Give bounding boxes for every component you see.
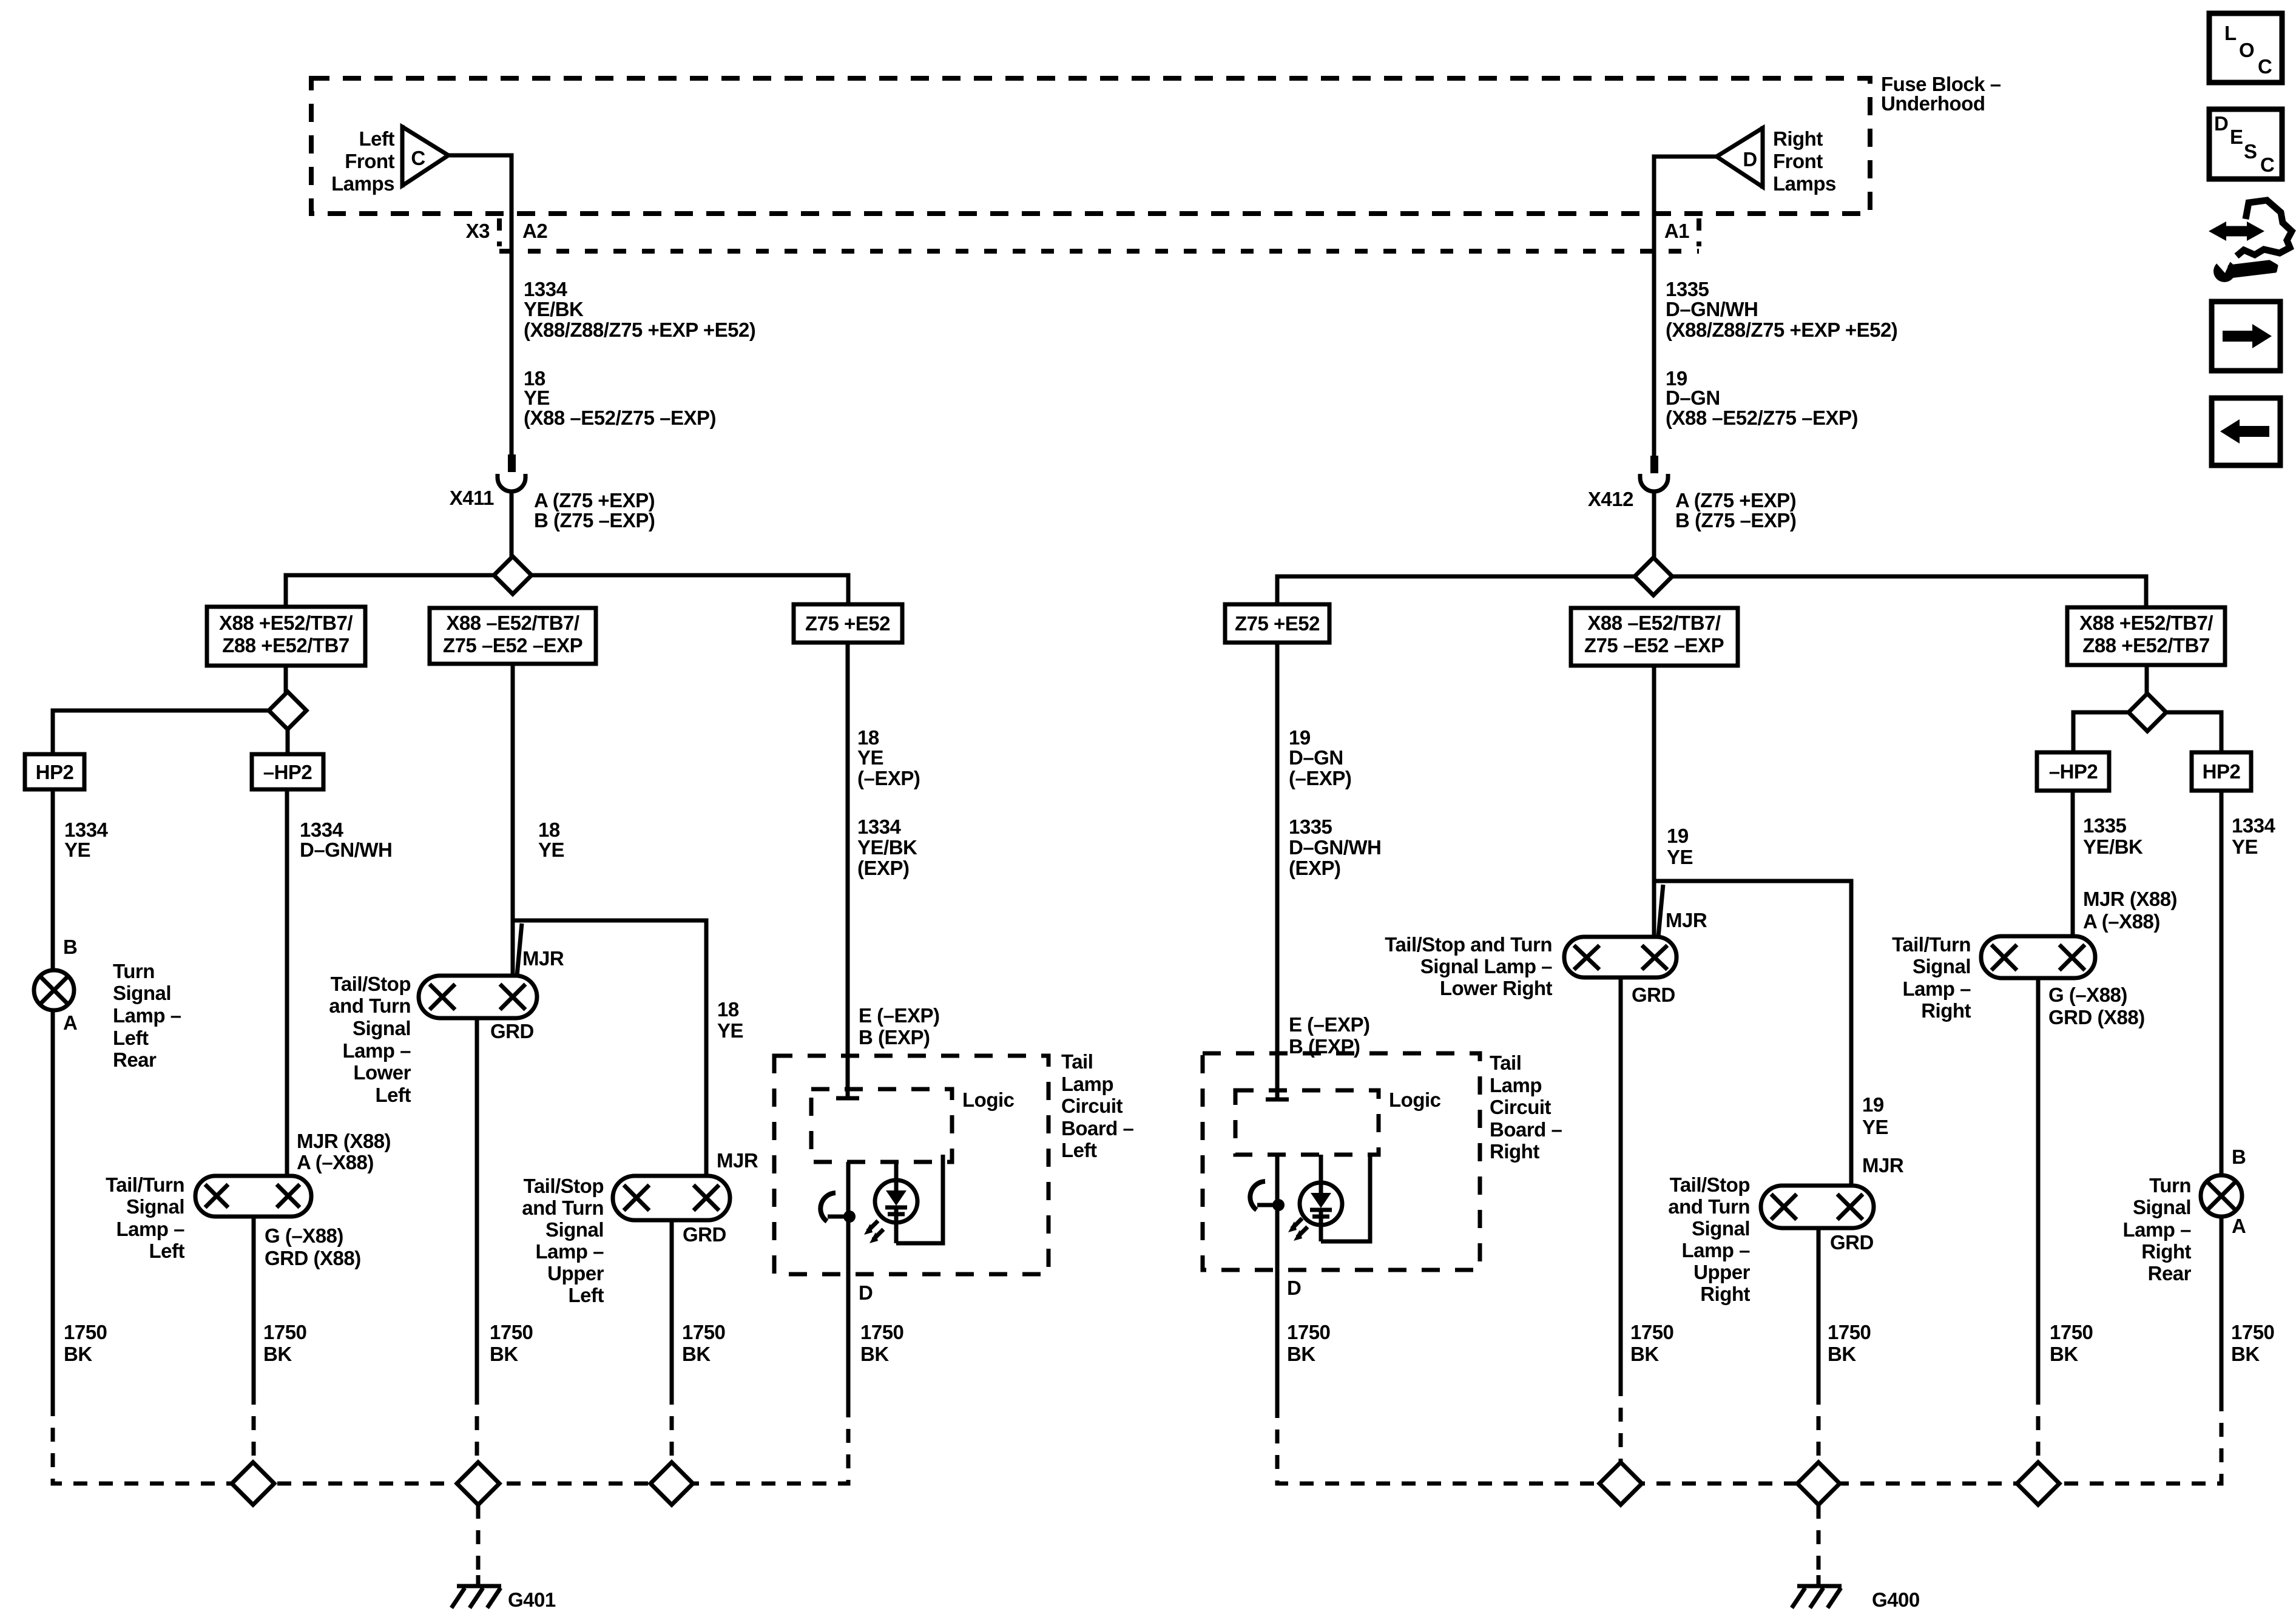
wire diamond2 to -HP2 left: [286, 729, 290, 754]
svg-text:S: S: [2244, 140, 2257, 163]
svg-text:Upper: Upper: [1693, 1261, 1751, 1283]
svg-text:Underhood: Underhood: [1881, 92, 1985, 115]
logic box right: [1235, 1089, 1441, 1155]
left main horizontal wire: [286, 575, 848, 607]
svg-text:D: D: [2214, 112, 2228, 135]
svg-text:D: D: [859, 1281, 873, 1304]
svg-text:G401: G401: [508, 1588, 556, 1611]
svg-text:B: B: [2232, 1146, 2246, 1168]
svg-text:Z88 +E52/TB7: Z88 +E52/TB7: [222, 634, 349, 657]
wire HP2 right to turn signal lamp right rear: [2221, 791, 2276, 1175]
svg-text:BK: BK: [263, 1343, 292, 1365]
svg-text:Tail/Turn: Tail/Turn: [106, 1173, 184, 1196]
option box HP2 left: [25, 754, 84, 789]
wire -HP2 to tail/turn lamp left: [287, 789, 392, 1176]
svg-text:BK: BK: [64, 1343, 92, 1365]
svg-text:YE: YE: [1862, 1116, 1888, 1138]
wire label 1334 YE/BK left: [524, 278, 755, 341]
tail/stop and turn signal lamp - upper right: [1668, 1154, 1904, 1305]
tail/stop and turn signal lamp - lower left: [329, 923, 564, 1106]
wire box to diamond right: [2145, 665, 2149, 694]
svg-text:E: E: [2230, 126, 2243, 148]
svg-text:1750: 1750: [1287, 1321, 1330, 1343]
svg-text:X88 –E52/TB7/: X88 –E52/TB7/: [1587, 612, 1720, 634]
svg-text:Tail/Stop: Tail/Stop: [1670, 1173, 1750, 1196]
svg-text:Right: Right: [1773, 127, 1823, 150]
svg-text:(X88 –E52/Z75 –EXP): (X88 –E52/Z75 –EXP): [1666, 407, 1858, 429]
svg-text:A (Z75 +EXP): A (Z75 +EXP): [534, 489, 655, 511]
connector C (Left Front Lamps) triangle: [331, 125, 448, 195]
tail lamp circuit board - right dashed box: [1203, 1052, 1562, 1270]
turn signal lamp - right rear: [2122, 1146, 2246, 1284]
svg-text:Turn: Turn: [113, 960, 155, 982]
svg-text:Lamp –: Lamp –: [1902, 977, 1971, 1000]
turn signal lamp - left rear: [34, 936, 181, 1071]
Fuse Block - Underhood dashed box: [311, 73, 2001, 214]
svg-text:BK: BK: [682, 1343, 711, 1365]
inline connector X412: [1588, 456, 1796, 532]
svg-text:Signal Lamp –: Signal Lamp –: [1420, 955, 1552, 977]
svg-text:G (–X88): G (–X88): [2048, 984, 2127, 1006]
bus diamond left 3: [650, 1462, 693, 1505]
wire X412 to junction: [1652, 491, 1656, 559]
svg-text:Left: Left: [149, 1240, 185, 1262]
svg-text:Front: Front: [1773, 150, 1823, 172]
wire -HP2 right to tail/turn lamp right: [2073, 791, 2177, 936]
tail/stop and turn signal lamp - upper left: [522, 1149, 758, 1306]
wire X88-E52 right box to lower right lamp: [1654, 666, 1693, 937]
svg-text:Lamp –: Lamp –: [342, 1039, 411, 1062]
junction diamond HP2 split left: [269, 692, 306, 729]
wire box to diamond2 left: [284, 666, 288, 694]
svg-text:BK: BK: [1287, 1343, 1315, 1365]
svg-text:Right: Right: [2141, 1240, 2191, 1263]
svg-text:1335: 1335: [2083, 814, 2127, 837]
svg-text:1750: 1750: [490, 1321, 533, 1343]
wire lamp A right to bus: [2221, 1217, 2274, 1404]
svg-text:Lower: Lower: [353, 1061, 411, 1084]
svg-text:Left: Left: [359, 127, 395, 150]
svg-text:Circuit: Circuit: [1490, 1096, 1551, 1118]
svg-text:X3: X3: [466, 220, 490, 242]
wire label 18 YE left: [524, 367, 716, 429]
svg-text:Z75 –E52 –EXP: Z75 –E52 –EXP: [443, 634, 582, 657]
tail lamp circuit board - left dashed box: [774, 1050, 1134, 1274]
svg-text:E (–EXP): E (–EXP): [859, 1004, 940, 1027]
svg-text:HP2: HP2: [2203, 760, 2241, 783]
svg-text:GRD: GRD: [490, 1020, 534, 1042]
option box X88 +E52/TB7 Z88 +E52/TB7 left: [207, 607, 365, 666]
svg-text:MJR (X88): MJR (X88): [2083, 888, 2177, 910]
svg-text:BK: BK: [1630, 1343, 1659, 1365]
svg-text:Front: Front: [345, 150, 394, 172]
option box Z75 +E52 left: [794, 604, 902, 643]
svg-text:1334: 1334: [2232, 814, 2276, 837]
svg-text:(–EXP): (–EXP): [1289, 767, 1351, 789]
svg-text:X411: X411: [450, 487, 494, 509]
option box X88 -E52/TB7 Z75 -E52 -EXP right: [1571, 608, 1738, 666]
svg-text:BK: BK: [2231, 1343, 2260, 1365]
svg-text:A (–X88): A (–X88): [297, 1151, 374, 1173]
svg-text:Lower Right: Lower Right: [1440, 977, 1553, 999]
wire X411 to junction: [510, 491, 514, 558]
svg-text:GRD: GRD: [1830, 1231, 1874, 1254]
wire HP2 to turn signal lamp left rear: [53, 789, 109, 970]
svg-text:(X88/Z88/Z75 +EXP +E52): (X88/Z88/Z75 +EXP +E52): [1666, 319, 1897, 341]
svg-text:1334: 1334: [524, 278, 568, 300]
junction diamond right main: [1635, 558, 1672, 595]
wire Z75 branch left to circuit board: [836, 643, 940, 1099]
svg-text:Tail/Stop: Tail/Stop: [331, 973, 411, 995]
junction diamond HP2 split right: [2129, 694, 2166, 731]
wire diamond to HP2 right: [2166, 712, 2221, 752]
svg-text:Lamps: Lamps: [1773, 172, 1836, 195]
svg-text:–HP2: –HP2: [263, 761, 312, 783]
svg-text:E (–EXP): E (–EXP): [1289, 1013, 1370, 1036]
wire lamp A to bus left: [53, 1010, 107, 1402]
wire label 1335 D-GN/WH right: [1666, 278, 1897, 341]
svg-text:GRD (X88): GRD (X88): [265, 1247, 361, 1269]
svg-text:A: A: [63, 1011, 77, 1034]
bus diamond right 3: [2017, 1462, 2059, 1505]
svg-text:YE/BK: YE/BK: [2083, 836, 2143, 858]
svg-text:1750: 1750: [263, 1321, 306, 1343]
svg-text:B (Z75 –EXP): B (Z75 –EXP): [534, 509, 655, 532]
inline connector X411: [450, 454, 655, 532]
svg-text:Signal: Signal: [126, 1195, 184, 1218]
svg-text:YE: YE: [717, 1019, 743, 1042]
wire branch to upper left lamp: [513, 920, 743, 1176]
tail/turn signal lamp - right: [1892, 933, 2145, 1028]
svg-text:Signal: Signal: [113, 982, 171, 1004]
svg-text:(X88/Z88/Z75 +EXP +E52): (X88/Z88/Z75 +EXP +E52): [524, 319, 755, 341]
svg-text:O: O: [2239, 39, 2254, 61]
option box X88 +E52/TB7 Z88 +E52/TB7 right: [2067, 607, 2225, 665]
icon DESC box: [2209, 109, 2282, 179]
svg-text:MJR: MJR: [1666, 909, 1707, 931]
svg-text:(X88 –E52/Z75 –EXP): (X88 –E52/Z75 –EXP): [524, 407, 716, 429]
wire diamond to -HP2 right: [2073, 712, 2129, 752]
LED left: [864, 1155, 943, 1243]
svg-text:X88 –E52/TB7/: X88 –E52/TB7/: [446, 612, 579, 634]
svg-text:Board –: Board –: [1061, 1117, 1134, 1139]
svg-text:1334: 1334: [857, 815, 902, 838]
wire logic to D pin left: [848, 1162, 903, 1409]
svg-text:YE: YE: [857, 746, 883, 769]
svg-text:Left: Left: [1061, 1139, 1097, 1161]
svg-text:A1: A1: [1664, 220, 1689, 242]
icon vehicle outline with wrench: [2209, 200, 2292, 282]
svg-text:C: C: [2260, 154, 2274, 176]
tail/stop and turn signal lamp - lower right: [1385, 885, 1707, 1006]
svg-text:Rear: Rear: [113, 1048, 157, 1071]
svg-text:Lamp –: Lamp –: [116, 1218, 184, 1240]
svg-text:Lamp –: Lamp –: [113, 1004, 181, 1027]
wire tail/turn left GRD to bus: [254, 1217, 306, 1391]
svg-text:X88 +E52/TB7/: X88 +E52/TB7/: [2079, 612, 2213, 634]
svg-text:Z75 +E52: Z75 +E52: [805, 612, 890, 635]
icon next-page arrow box: [2212, 302, 2280, 371]
svg-text:18: 18: [717, 998, 739, 1021]
node junction dot left board: [820, 1193, 856, 1223]
svg-text:HP2: HP2: [36, 761, 74, 783]
svg-text:C: C: [2258, 55, 2272, 78]
connector D (Right Front Lamps) triangle: [1717, 126, 1836, 195]
bus diamond right 1: [1599, 1462, 1642, 1505]
svg-text:(–EXP): (–EXP): [857, 767, 920, 789]
svg-text:18: 18: [857, 726, 879, 749]
svg-text:Turn: Turn: [2149, 1174, 2191, 1197]
junction diamond left main: [494, 556, 532, 594]
svg-text:19: 19: [1289, 726, 1311, 749]
svg-text:Lamps: Lamps: [331, 172, 394, 195]
svg-text:1750: 1750: [1630, 1321, 1673, 1343]
svg-text:D–GN: D–GN: [1666, 387, 1720, 409]
svg-text:MJR: MJR: [717, 1149, 758, 1172]
svg-text:19: 19: [1667, 825, 1689, 847]
svg-text:Right: Right: [1700, 1283, 1750, 1305]
icon prev-page arrow box: [2212, 398, 2280, 465]
svg-text:D–GN: D–GN: [1289, 746, 1343, 769]
svg-text:Logic: Logic: [1389, 1089, 1441, 1111]
svg-text:YE: YE: [538, 839, 564, 861]
svg-text:BK: BK: [1828, 1343, 1856, 1365]
svg-text:D: D: [1287, 1277, 1301, 1299]
svg-text:1334: 1334: [300, 819, 344, 841]
tail/turn signal lamp - left: [106, 1173, 361, 1269]
svg-text:GRD: GRD: [683, 1223, 726, 1246]
svg-text:G (–X88): G (–X88): [265, 1224, 343, 1247]
wire mid box to lower left lamp: [513, 664, 564, 976]
svg-text:A: A: [2232, 1215, 2246, 1237]
svg-text:Logic: Logic: [962, 1089, 1015, 1111]
svg-text:L: L: [2224, 22, 2237, 44]
logic box left: [811, 1089, 1015, 1162]
svg-text:BK: BK: [2050, 1343, 2078, 1365]
svg-text:1750: 1750: [1828, 1321, 1871, 1343]
svg-text:1750: 1750: [2231, 1321, 2274, 1343]
svg-text:and Turn: and Turn: [1668, 1195, 1750, 1218]
svg-text:Right: Right: [1921, 999, 1971, 1022]
wire branch to upper right lamp: [1654, 881, 1888, 1186]
wire logic to D pin right: [1277, 1155, 1330, 1404]
bus diamond left 2: [457, 1462, 499, 1505]
svg-text:and Turn: and Turn: [329, 994, 411, 1017]
svg-text:C: C: [411, 147, 425, 169]
option box HP2 right: [2192, 752, 2251, 791]
wire Z75 branch right to circuit board: [1266, 643, 1381, 1101]
svg-text:A (–X88): A (–X88): [2083, 910, 2160, 933]
svg-text:Lamp –: Lamp –: [535, 1240, 604, 1263]
bus diamond right 2: [1797, 1462, 1840, 1505]
icon LOC box: [2209, 13, 2282, 83]
wire from C to X411: [447, 155, 512, 454]
svg-text:A (Z75 +EXP): A (Z75 +EXP): [1675, 489, 1796, 511]
svg-text:MJR (X88): MJR (X88): [297, 1130, 391, 1152]
wire from D to X412: [1654, 157, 1718, 456]
svg-text:1750: 1750: [64, 1321, 107, 1343]
ground G400: [1792, 1505, 1920, 1611]
svg-text:Signal: Signal: [1913, 955, 1971, 977]
wire lower right GRD to bus: [1621, 977, 1673, 1382]
svg-text:B: B: [63, 936, 77, 958]
svg-text:X412: X412: [1588, 488, 1633, 510]
svg-text:Circuit: Circuit: [1061, 1095, 1123, 1117]
svg-text:YE: YE: [2232, 836, 2258, 858]
svg-text:Lamp –: Lamp –: [2122, 1218, 2191, 1241]
svg-text:Lamp: Lamp: [1490, 1074, 1542, 1096]
svg-text:1334: 1334: [64, 819, 109, 841]
left ground bus dashed: [53, 1391, 848, 1484]
svg-text:Lamp: Lamp: [1061, 1073, 1113, 1095]
svg-text:D: D: [1743, 148, 1757, 170]
svg-text:Signal: Signal: [545, 1218, 604, 1241]
svg-text:GRD: GRD: [1632, 984, 1675, 1006]
svg-text:D–GN/WH: D–GN/WH: [1666, 298, 1758, 320]
svg-text:Tail: Tail: [1490, 1052, 1521, 1074]
svg-text:Z75 +E52: Z75 +E52: [1235, 612, 1320, 635]
svg-text:D–GN/WH: D–GN/WH: [1289, 836, 1381, 859]
node junction dot right board: [1250, 1181, 1285, 1211]
svg-text:YE: YE: [64, 839, 90, 861]
wire diamond2 to HP2 left: [53, 711, 269, 754]
right main horizontal wire: [1277, 576, 2146, 607]
svg-text:X88 +E52/TB7/: X88 +E52/TB7/: [219, 612, 353, 634]
svg-text:MJR: MJR: [1862, 1154, 1904, 1176]
svg-text:YE: YE: [524, 387, 550, 409]
svg-text:1335: 1335: [1289, 815, 1332, 838]
svg-text:(EXP): (EXP): [1289, 857, 1341, 879]
wire upper right GRD to bus: [1818, 1228, 1871, 1391]
svg-text:YE/BK: YE/BK: [524, 298, 584, 320]
svg-text:Tail/Stop and Turn: Tail/Stop and Turn: [1385, 933, 1552, 956]
wire tail/turn right GRD to bus: [2038, 978, 2093, 1391]
svg-text:Upper: Upper: [547, 1262, 604, 1284]
svg-text:MJR: MJR: [522, 947, 564, 970]
LED right: [1288, 1155, 1370, 1241]
svg-text:D–GN/WH: D–GN/WH: [300, 839, 392, 861]
svg-text:1750: 1750: [860, 1321, 903, 1343]
option box Z75 +E52 right: [1225, 604, 1329, 643]
fuse block connector edge X3/A2/A1 dashed line: [466, 218, 1699, 251]
svg-text:Signal: Signal: [2133, 1196, 2191, 1218]
svg-text:Z88 +E52/TB7: Z88 +E52/TB7: [2082, 634, 2210, 657]
option box -HP2 left: [252, 754, 323, 789]
svg-text:(EXP): (EXP): [857, 857, 910, 879]
option box -HP2 right: [2037, 752, 2109, 791]
svg-text:18: 18: [538, 819, 560, 841]
wire label 19 D-GN right: [1666, 367, 1858, 429]
svg-text:A2: A2: [522, 220, 547, 242]
svg-text:GRD (X88): GRD (X88): [2048, 1006, 2145, 1028]
svg-text:G400: G400: [1872, 1588, 1920, 1611]
svg-text:BK: BK: [490, 1343, 518, 1365]
svg-text:Right: Right: [1490, 1140, 1539, 1163]
svg-text:–HP2: –HP2: [2049, 760, 2098, 783]
svg-text:Lamp –: Lamp –: [1681, 1239, 1750, 1261]
svg-text:and Turn: and Turn: [522, 1197, 604, 1219]
right ground bus dashed: [1277, 1382, 2221, 1484]
ground G401: [451, 1505, 556, 1611]
svg-text:1750: 1750: [2050, 1321, 2093, 1343]
wire upper left GRD to bus: [672, 1220, 725, 1391]
wire lower left GRD to bus: [477, 1018, 533, 1391]
svg-text:Signal: Signal: [1692, 1217, 1750, 1240]
svg-text:1335: 1335: [1666, 278, 1709, 300]
svg-text:YE: YE: [1667, 846, 1693, 868]
svg-text:Tail/Turn: Tail/Turn: [1892, 933, 1971, 956]
svg-text:BK: BK: [860, 1343, 889, 1365]
svg-text:Tail/Stop: Tail/Stop: [524, 1175, 604, 1197]
svg-text:19: 19: [1862, 1093, 1884, 1116]
bus diamond left 1: [232, 1462, 274, 1505]
svg-text:Tail: Tail: [1061, 1050, 1093, 1073]
svg-text:Board –: Board –: [1490, 1118, 1562, 1141]
svg-text:Left: Left: [376, 1084, 411, 1106]
svg-text:Left: Left: [113, 1027, 149, 1049]
svg-text:B (EXP): B (EXP): [859, 1026, 930, 1048]
svg-text:Rear: Rear: [2148, 1262, 2192, 1284]
svg-text:Signal: Signal: [353, 1017, 411, 1039]
svg-text:1750: 1750: [682, 1321, 725, 1343]
svg-text:YE/BK: YE/BK: [857, 836, 917, 859]
svg-text:Left: Left: [569, 1284, 604, 1306]
svg-text:B (Z75 –EXP): B (Z75 –EXP): [1675, 509, 1796, 532]
option box X88 -E52/TB7 Z75 -E52 -EXP left: [430, 608, 596, 664]
svg-text:Z75 –E52 –EXP: Z75 –E52 –EXP: [1584, 634, 1724, 657]
